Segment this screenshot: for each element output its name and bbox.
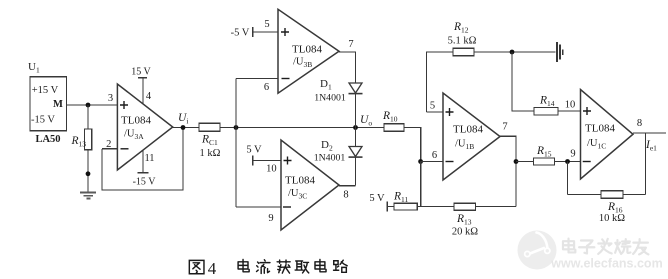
- resistor R12 5.1 kOhm: [453, 48, 474, 56]
- svg-text:10: 10: [565, 100, 576, 111]
- wire pin 7 of U3B to D1: [339, 52, 356, 83]
- op-amp U3B minus input: [282, 78, 290, 80]
- svg-text:7: 7: [502, 122, 507, 133]
- svg-text:6: 6: [432, 150, 437, 161]
- wire pin 8 output of U1C: [633, 132, 666, 134]
- op-amp U1B minus input: [446, 161, 454, 163]
- resistor RB (burden resistor): [85, 129, 92, 150]
- svg-text:4: 4: [208, 259, 217, 278]
- wire feedback up to output U1C: [645, 133, 647, 194]
- svg-text:R15: R15: [536, 145, 552, 159]
- svg-text:M: M: [53, 99, 63, 110]
- svg-text:/U1B: /U1B: [455, 139, 474, 152]
- wire junction down to R14: [512, 52, 534, 111]
- junction on ground wire: [86, 171, 91, 176]
- wire RB to ground: [87, 150, 89, 192]
- node output U1B: [514, 159, 519, 164]
- svg-text:R12: R12: [453, 21, 469, 35]
- svg-text:-15 V: -15 V: [133, 177, 157, 188]
- svg-text:5: 5: [430, 101, 435, 112]
- svg-text:R10: R10: [382, 110, 398, 124]
- wire R11 to rail: [417, 206, 420, 208]
- node Ui: [181, 125, 186, 130]
- svg-text:-5 V: -5 V: [231, 28, 250, 39]
- LA50 current sensor U1 box: [30, 77, 66, 131]
- svg-text:TL084: TL084: [585, 123, 615, 135]
- op-amp U3B plus input: [281, 28, 289, 36]
- svg-text:3: 3: [108, 93, 113, 104]
- wire node down to R11/R13 rail: [420, 162, 422, 207]
- svg-text:TL084: TL084: [292, 44, 322, 56]
- svg-text:TL084: TL084: [453, 124, 483, 136]
- +15V supply pin 4 of U3A: [142, 78, 144, 104]
- svg-text:D1: D1: [320, 78, 332, 92]
- resistor R14: [534, 107, 558, 115]
- svg-text:11: 11: [144, 153, 154, 164]
- op-amp U3C: [281, 140, 339, 230]
- svg-text:/U3A: /U3A: [124, 129, 144, 142]
- -15V supply pin 11 of U3A: [142, 150, 144, 172]
- junction R12 / R14 / earth: [510, 50, 515, 55]
- watermark logo elecfans: [518, 231, 557, 270]
- svg-text:15 V: 15 V: [131, 67, 151, 78]
- svg-text:+15 V: +15 V: [32, 85, 59, 96]
- svg-text:5 V: 5 V: [246, 145, 262, 156]
- svg-text:9: 9: [570, 149, 575, 160]
- wire bottom feedback rail U1B: [421, 206, 516, 208]
- svg-text:/U3C: /U3C: [288, 188, 307, 201]
- diode D2 1N4001: [349, 147, 362, 157]
- svg-text:5.1 kΩ: 5.1 kΩ: [448, 36, 477, 47]
- wire pin 2 of U3A: [102, 148, 117, 150]
- svg-text:5: 5: [264, 19, 269, 30]
- svg-text:8: 8: [343, 190, 348, 201]
- svg-text:7: 7: [348, 39, 353, 50]
- svg-text:1 kΩ: 1 kΩ: [200, 148, 221, 159]
- resistor R10: [384, 124, 404, 131]
- earth ground symbol: [557, 42, 563, 62]
- svg-text:Ie1: Ie1: [645, 139, 657, 153]
- node pin 9 of U1C: [565, 159, 570, 164]
- op-amp U3C plus input: [284, 157, 292, 165]
- op-amp U1C: [581, 90, 634, 180]
- svg-text:-15 V: -15 V: [31, 115, 55, 126]
- svg-text:TL084: TL084: [285, 175, 315, 187]
- wire D2 to pin 8 of U3C: [355, 157, 357, 186]
- junction to U3B/U3C inputs: [234, 125, 239, 130]
- svg-text:8: 8: [637, 118, 642, 129]
- wire to minus input U1B: [421, 161, 443, 163]
- wire pin 10 of U3C: [253, 160, 281, 162]
- wire U3A output to node Ui: [173, 127, 199, 129]
- resistor RC1 1 kOhm: [199, 123, 220, 131]
- svg-text:20 kΩ: 20 kΩ: [452, 227, 478, 238]
- svg-text:9: 9: [268, 213, 273, 224]
- svg-text:LA50: LA50: [35, 134, 60, 145]
- wire pin 6 of U3B: [236, 78, 278, 80]
- wire to R16: [568, 193, 602, 195]
- wire pin 9 node down to R16: [567, 162, 569, 195]
- caption: figure 4 current acquisition circuit: [189, 260, 204, 273]
- wire output to R15: [516, 161, 534, 163]
- svg-text:6: 6: [264, 82, 269, 93]
- node M junction: [86, 103, 91, 108]
- wire R12 to earth: [474, 51, 555, 53]
- svg-text:/U1C: /U1C: [587, 138, 606, 151]
- wire node M down to RB: [87, 105, 89, 129]
- wire to plus input U1B: [427, 111, 444, 113]
- wire R14 to pin 10 of U1C: [558, 110, 581, 112]
- svg-text:RC1: RC1: [201, 134, 218, 148]
- resistor R15: [534, 158, 555, 165]
- svg-text:5 V: 5 V: [369, 193, 385, 204]
- svg-text:www.elecfans.com: www.elecfans.com: [550, 257, 662, 271]
- op-amp U1B: [443, 93, 500, 180]
- svg-text:4: 4: [146, 91, 152, 102]
- svg-text:D2: D2: [321, 139, 333, 153]
- svg-text:R11: R11: [393, 191, 409, 205]
- svg-text:Uo: Uo: [360, 114, 372, 128]
- wire M output to pin 3 of U3A: [66, 104, 117, 106]
- op-amp U3A plus input: [120, 101, 128, 109]
- svg-text:10 kΩ: 10 kΩ: [599, 213, 625, 224]
- node Uo: [353, 125, 358, 130]
- svg-text:R14: R14: [539, 95, 555, 109]
- ground: [80, 193, 96, 199]
- wire pin 9 of U3C: [236, 206, 281, 208]
- diode D1 1N4001: [349, 83, 362, 93]
- op-amp U3A: [117, 84, 172, 170]
- wire R10 to pin 6 of U1B: [404, 128, 421, 162]
- resistor R16 10 kOhm: [601, 191, 623, 199]
- wire R16 to output: [623, 193, 646, 195]
- svg-text:U1: U1: [28, 61, 40, 75]
- wire feedback loop U3A: [102, 128, 183, 191]
- watermark text: [563, 239, 575, 253]
- op-amp U3B: [278, 9, 339, 93]
- op-amp U1B plus input: [446, 108, 454, 116]
- svg-text:1N4001: 1N4001: [314, 153, 346, 164]
- svg-text:/U3B: /U3B: [293, 57, 312, 70]
- svg-text:Ui: Ui: [178, 112, 188, 126]
- op-amp U3A minus input: [121, 148, 129, 150]
- wire D1 to node Uo to D2: [355, 94, 357, 147]
- wire pin 7 of U1B output: [500, 136, 516, 206]
- wire input vertical bus U3B/U3C: [235, 79, 237, 208]
- resistor R11: [394, 203, 417, 210]
- wire RC1 to node Uo and R10: [220, 127, 384, 129]
- wire 5V tick to R11: [387, 206, 394, 208]
- op-amp U1C minus input: [583, 161, 591, 163]
- op-amp U3C minus input: [283, 206, 291, 208]
- node pin 6 of U1B: [418, 159, 423, 164]
- wire R15 to pin 9 of U1C: [555, 161, 581, 163]
- wire pin 5 of U1B up to R12: [427, 52, 454, 112]
- wire pin 8 of U3C: [339, 185, 356, 187]
- svg-text:R13: R13: [456, 213, 472, 227]
- resistor R13 20 kOhm: [454, 203, 476, 210]
- wire pin 5 of U3B: [253, 31, 279, 33]
- svg-text:1N4001: 1N4001: [314, 93, 346, 104]
- svg-text:10: 10: [266, 164, 277, 175]
- svg-text:TL084: TL084: [121, 115, 151, 127]
- op-amp U1C plus input: [583, 107, 591, 115]
